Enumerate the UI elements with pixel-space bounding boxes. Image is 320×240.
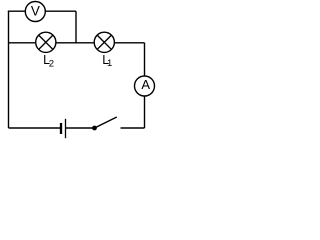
svg-text:1: 1: [107, 58, 112, 69]
svg-text:V: V: [31, 4, 40, 19]
svg-text:2: 2: [49, 58, 54, 69]
svg-text:A: A: [141, 77, 150, 92]
